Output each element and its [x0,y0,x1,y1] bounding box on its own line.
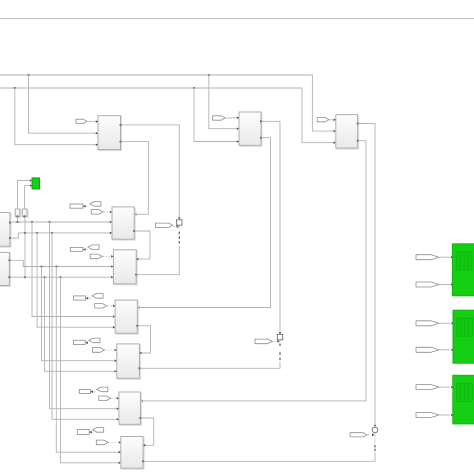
from tag G2 in2 [416,347,439,352]
wire bus line3 B.out1 to U5 in2 [9,260,111,266]
goto tag U4 [90,202,101,207]
tap block S1 [16,210,21,217]
port U1 out2 [120,141,122,143]
wire tag to U1 in1 [87,120,95,122]
wire U2 out1 to switch P2 [261,121,280,331]
wire bus y88 [0,88,334,143]
wire goto to terminator U4 [83,205,89,207]
node dots line2 [24,232,26,234]
wire U3 out1 to switch P3 [358,124,375,425]
from tag G1 in1 [416,255,439,260]
port U4 out [133,230,135,232]
wire tag to G3 in2 [439,414,450,416]
wire tag to G1 in2 [439,284,450,286]
wire S2 down through line2 to line4 [24,216,26,277]
wire tag to G1 in1 [439,256,450,258]
node junction y88 x14.8 [14,87,16,89]
node dots line3 [40,265,42,267]
node dots line4 [24,276,26,278]
wire S1 to display G0 [18,181,30,210]
scope G3 (green) [453,375,474,424]
wire drop V8 to U9 in3 [61,277,119,463]
from tag U6 [95,304,107,309]
wire tag to U2 in1 [225,117,236,119]
node junction y75 x209 [208,74,210,76]
subsystem U2 [240,113,262,146]
from tag P2 [255,339,272,344]
port U2 out2 [260,137,262,139]
wire bus line1 A.out1 to U4 in2 [10,221,110,223]
port S2 bottom [24,216,26,218]
terminator tag U8 [79,389,90,393]
wire tag to U3 in1 [329,119,333,121]
wire bus line2 A.out2 to U4 in3 [10,233,110,238]
subsystem U5 [114,251,137,285]
wire from tag to U6 in1 [107,305,112,307]
switch P1 square [177,220,182,225]
terminator tag U6 [74,296,86,300]
subsystem U4 [113,208,135,240]
port A out2 [9,237,11,239]
wire top bus y19 [0,18,474,20]
subsystem U9 [122,438,144,470]
tap block S2 [23,210,28,217]
from tag U4 [91,210,103,215]
wire drop V3 to U7 in2 [42,267,115,361]
wire goto to terminator U8 [91,391,96,393]
from tag U8 [99,396,111,401]
port B out2 [9,276,11,278]
wire tag to P3 [368,434,372,436]
goto tag U6 [92,294,103,299]
wire goto to terminator U5 [83,249,87,251]
from tag G3 in2 [416,413,439,418]
wire tag to P2 [273,340,277,342]
from tag G1 in2 [416,282,439,287]
wire bus line4 B.out2 to U5 in3 [9,276,111,278]
goto tag U7 [89,338,100,343]
subsystem U6 [116,301,138,334]
subsystem U8 [120,393,141,425]
port U9 out [142,460,144,462]
wire U1 out2 to U4 right input [121,142,149,215]
wire drop V2 to U6 in3 [37,233,113,327]
wire tag to P1 [173,226,176,228]
subsystem B (cut at left edge) [0,253,10,286]
from tag U3 [317,118,329,122]
port U1 out1 [120,124,122,126]
wire tag to G3 in1 [439,386,450,388]
from tag G3 in1 [416,385,439,390]
wire S1 down to bus line1 [17,216,19,222]
wire branch to U1 in3 [15,88,96,145]
port U7 out [139,367,141,369]
goto tag U9 [93,428,104,433]
wire goto to terminator U9 [90,431,92,433]
port U8 out [140,417,142,419]
wire bus y75 [0,75,334,131]
wire arrow U3 in2 [334,130,336,133]
switch P2 square [277,334,282,339]
port U2 out1 [260,120,262,122]
wire from tag to U4 in1 [104,211,109,213]
wire from tag to U5 in1 [103,255,111,257]
from tag U7 [93,348,105,353]
wire drop V4 to U7 in3 [45,277,115,371]
subsystem U1 [99,117,122,151]
wire from tag to U7 in1 [105,349,114,351]
from tag U1 [76,119,87,123]
wire drop V1 to U6 in2 [32,222,113,317]
wire branch to U2 in2 [209,75,237,129]
node dots line1 [16,221,18,223]
wire tag to G2 in2 [439,349,450,351]
wire U2 out2 to U6 right input [140,138,271,308]
wire goto to terminator U7 [86,342,89,344]
wire U9 out to P3 (dashed) [143,453,375,462]
node junction y88 x194 [193,87,195,89]
scope G2 (green) [453,310,474,363]
terminator tag U4 [70,204,83,208]
port U3 out2 [357,140,359,142]
port U3 out1 [357,123,359,125]
port U6 out [136,325,138,327]
from tag U2 [213,116,226,120]
goto tag U8 [97,387,108,392]
from tag U9 [96,440,108,445]
wire drop V7 to U9 in2 [56,267,118,453]
subsystem U3 [337,116,359,149]
terminator tag U7 [74,340,86,344]
wire drop V6 to U8 in3 [52,233,116,419]
wire U5 out up to P1 (dashed) [136,246,179,275]
wire U1 out1 to switch P1 [121,125,180,217]
wire U3 out2 to U8 right input [143,141,366,401]
wire U6 out to U7 right input [137,326,150,353]
terminator tag U9 [77,430,89,435]
node junction y75 x28.5 [27,74,29,76]
wire arrow U3 in3 [334,141,336,144]
goto tag U5 [88,245,99,250]
scope G1 (green) [452,244,474,296]
from tag G2 in1 [416,321,439,326]
wire branch to U1 in2 [29,75,96,133]
port U5 out [135,274,137,276]
wire tag to G2 in1 [439,322,450,324]
wire U8 out to U9 right input [140,418,153,445]
from tag P1 [155,223,172,227]
port B out1 [9,259,11,261]
from tag P3 [350,433,367,437]
wire from tag to U9 in1 [109,441,118,443]
switch P3 circle [372,427,378,433]
port A out1 [9,222,11,224]
from tag U5 [90,254,102,259]
wire U4 out to U5 right input [134,231,150,259]
terminator tag U5 [70,247,83,251]
port S1 bottom [17,216,19,218]
subsystem A (cut at left edge) [0,214,11,248]
wire drop V5 to U8 in2 [50,222,117,409]
wire branch to U2 in3 [194,88,237,142]
wire from tag to U8 in1 [111,397,116,399]
wire goto to terminator U6 [86,297,91,299]
wire U7 out to P2 (dashed) [139,362,280,369]
wire S2 to display G0 [25,186,30,209]
subsystem U7 [118,345,141,379]
display G0 (green) [32,178,40,189]
